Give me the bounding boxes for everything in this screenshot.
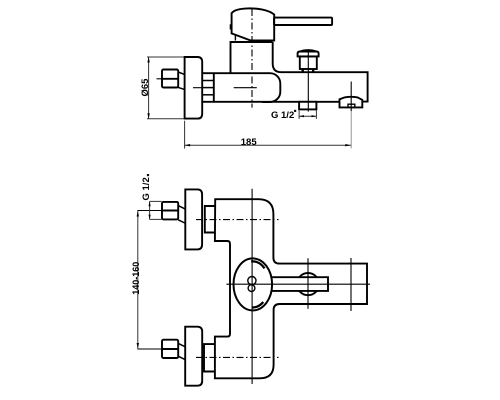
svg-text:185: 185 [241,137,258,148]
bottom nut axis [137,348,162,350]
arrowheads Ø65 [147,57,149,63]
top taper [178,206,185,223]
diverter circle [297,273,319,295]
body top-right edge with fillet from column [273,42,368,102]
arrowheads G1/2 bottom [149,201,151,206]
diverter knob cap [298,52,319,57]
diverter axis [307,258,309,309]
dim Ø65 line [148,57,150,119]
body left edge [213,73,215,102]
top wall flange [185,189,202,249]
dim 140-160 line [137,211,139,349]
diverter knob cap dome [299,50,317,52]
wall flange [185,57,203,119]
center lines, top view [157,9,352,148]
bottom taper [178,343,185,359]
inner arc top [251,261,264,268]
shower axis extension to dim [350,111,352,148]
svg-text:G 1/2: G 1/2 [271,110,294,121]
dimensions, bottom view [138,201,162,348]
dim G1/2 witness lines [150,200,162,202]
diverter knob feet [303,69,314,73]
horizontal center line [226,283,370,285]
cartridge column [231,42,273,73]
union nut [162,70,178,88]
dim G1/2 witness lines [298,110,300,119]
top union nut [162,202,178,220]
thread lines [202,81,214,95]
dim 185 left witness [184,121,186,149]
shower outlet nipple [348,104,355,107]
handle body [232,8,275,40]
bottom union nut [162,340,178,358]
top inlet pipe [205,206,215,233]
handle ellipse [234,258,273,310]
svg-text:Ø65: Ø65 [140,78,151,97]
bottom inlet pipe [204,344,215,371]
center lines, bottom view [137,189,370,384]
handle base notch [234,35,236,41]
svg-text:G 1/2: G 1/2 [141,177,152,200]
top nut axis [137,210,162,212]
body capsule rounded front arc [262,73,280,102]
body bottom line [202,101,339,103]
bottom wall flange [185,327,202,386]
diverter axis [307,50,309,112]
top connector axis dash-dot [196,219,279,221]
flange axis [193,87,203,89]
capsule center cross [234,87,257,89]
arrowheads 185 [185,144,191,146]
dim G1/2 line (bottom view) [149,201,151,219]
arrowheads G1/2 [299,115,304,117]
svg-text:140-160: 140-160 [131,262,141,295]
diverter knob body [300,56,317,69]
vertical center line [251,189,253,384]
handle lever [274,18,332,25]
bottom connector axis dash-dot [196,356,279,358]
spout pipe [270,277,328,291]
dim G1/2 line [299,115,316,117]
shower axis [350,82,352,112]
hot/cold symbol top circle [248,277,256,285]
handle indicator dot [230,24,232,29]
handle axis dash-dot [251,9,253,108]
body outline [215,199,367,378]
hot/cold symbol bottom circle [248,285,255,292]
inch mark (bottom view G 1/2) [147,174,149,176]
inch mark (top view G 1/2) [294,110,296,112]
dim Ø65 witness lines [147,56,184,58]
taper nut to flange [178,72,185,75]
nut axis [157,78,163,80]
dim 185 line [185,144,351,146]
body capsule top line [202,72,262,74]
bottom tailpiece G1/2 [299,102,316,110]
dimensions, top view [147,57,351,149]
shower outlet bump [340,97,363,108]
shower axis [350,258,352,311]
arrowheads 140-160 [137,211,139,217]
inner arc bottom [252,302,263,307]
